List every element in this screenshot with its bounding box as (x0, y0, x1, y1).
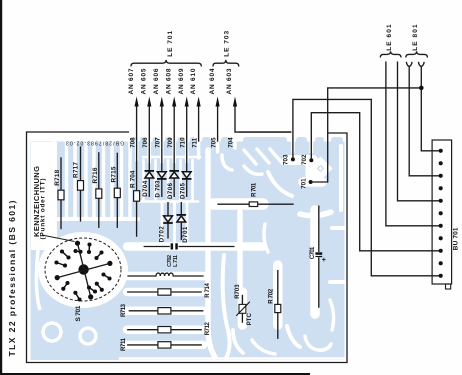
svg-text:AN 608: AN 608 (165, 68, 172, 94)
wire AN609/710 + arrow (to diode D705) (185, 97, 189, 198)
svg-text:709: 709 (167, 137, 174, 148)
svg-text:R713: R713 (121, 303, 127, 317)
resistor R701 (217, 202, 293, 207)
svg-text:AN 605: AN 605 (141, 68, 148, 94)
label R 701 (252, 182, 258, 197)
svg-text:AN 604: AN 604 (209, 68, 216, 94)
svg-text:AN 610: AN 610 (190, 68, 197, 94)
svg-text:703: 703 (283, 154, 290, 165)
inductor L711 (127, 273, 203, 276)
label R 702 (268, 288, 274, 304)
label R715 (110, 166, 117, 182)
label R718 (54, 169, 61, 185)
label C701 (310, 246, 316, 259)
label AN 607 (128, 68, 135, 94)
label AN 603 (226, 68, 233, 94)
label R712 (205, 322, 211, 336)
pad label 707 (155, 137, 162, 148)
thermistor R703 PTC (236, 295, 250, 323)
wire AN608/709 + arrow (to diode D706) (172, 97, 176, 198)
label D705 (181, 182, 187, 199)
label C702 (167, 255, 173, 267)
svg-text:AN 603: AN 603 (226, 68, 233, 94)
label LE 703 (224, 31, 231, 57)
svg-text:D 703: D 703 (156, 180, 162, 198)
diode D706 (169, 171, 179, 178)
svg-text:R 704: R 704 (130, 170, 137, 188)
svg-text:D704: D704 (143, 180, 149, 197)
svg-text:708: 708 (129, 137, 136, 148)
label AN 610 (190, 68, 197, 94)
svg-text:LE 703: LE 703 (224, 31, 231, 57)
svg-text:AN 606: AN 606 (153, 68, 160, 94)
wire AN606/707 + arrow (to diode D703) (160, 97, 164, 198)
wire LE601 left (to BU701 pin 7) (386, 62, 441, 226)
svg-text:D705: D705 (181, 182, 187, 199)
svg-text:704: 704 (228, 137, 235, 148)
resistor R702 (275, 270, 281, 339)
wire AN607/708 + arrow (to resistor R704) (135, 97, 139, 237)
brace LE 601 (380, 51, 401, 57)
svg-text:R712: R712 (205, 322, 211, 336)
label AN 606 (153, 68, 160, 94)
diode D702 (163, 202, 173, 239)
svg-text:AN 609: AN 609 (178, 68, 185, 94)
svg-text:AN 607: AN 607 (128, 68, 135, 94)
svg-text:R 702: R 702 (268, 288, 274, 304)
svg-text:711: 711 (191, 137, 198, 148)
pad label 710 (179, 137, 186, 148)
label AN 605 (141, 68, 148, 94)
pad label 704 (228, 137, 235, 148)
diode D704 (145, 171, 155, 178)
svg-text:+: + (322, 255, 326, 264)
resistor R715 (114, 153, 120, 228)
label D 703 (156, 180, 162, 198)
svg-text:707: 707 (155, 137, 162, 148)
diode D705 (182, 172, 192, 179)
callout line KENNZEICHNUNG to S701 (42, 235, 75, 242)
label R 704 (130, 170, 137, 188)
label S 701 (75, 305, 82, 321)
svg-text:710: 710 (179, 137, 186, 148)
pad label 708 (129, 137, 136, 148)
wire LE801 right with fork terminal (to BU701 pin 1) (419, 62, 441, 151)
capacitor C701 (electrolytic) (315, 206, 326, 308)
brace LE 703 (213, 60, 239, 67)
svg-text:D702: D702 (159, 226, 165, 243)
svg-text:PTC: PTC (247, 313, 253, 326)
wire AN605/706 + arrow (to diode D704) (147, 97, 151, 198)
label LE 801 (412, 24, 419, 51)
label D702 (159, 226, 165, 243)
svg-text:R703: R703 (235, 284, 241, 299)
label R711 (121, 337, 127, 351)
svg-text:R711: R711 (121, 337, 127, 351)
label R703 (235, 284, 241, 299)
resistor R711 (127, 342, 202, 348)
svg-text:L 711: L 711 (173, 255, 179, 267)
wire LE601 right (to BU701 pin 5) (398, 62, 441, 201)
label LE 601 (386, 24, 393, 51)
svg-text:S 701: S 701 (75, 305, 82, 321)
svg-text:C701: C701 (310, 246, 316, 259)
scan artifact bottom edge line (0, 373, 310, 375)
label AN 609 (178, 68, 185, 94)
svg-text:R717: R717 (72, 162, 79, 178)
brace LE 701 (131, 60, 202, 67)
label AN 608 (165, 68, 172, 94)
label R 714 (205, 283, 211, 298)
resistor R716 (96, 152, 102, 228)
pad label 711 (191, 137, 198, 148)
label KENNZEICHNUNG (32, 166, 41, 237)
svg-text:TLX 22 professional (BS 601): TLX 22 professional (BS 601) (7, 200, 17, 356)
label R716 (92, 167, 99, 183)
label BU 701 (453, 227, 460, 250)
diode D703 (157, 172, 167, 179)
wire AN610/711 + arrow (stub) (197, 97, 201, 142)
wire AN604/705 + arrow (stub) (216, 97, 220, 142)
label TLX 22 professional (BS 601) (7, 200, 17, 356)
capacitor C702 (144, 243, 235, 249)
svg-text:D706: D706 (168, 182, 174, 199)
brace LE 801 (406, 51, 428, 57)
svg-text:(Punkt oder ITT): (Punkt oder ITT) (40, 179, 47, 240)
svg-text:LE 701: LE 701 (167, 31, 174, 57)
pad label 709 (167, 137, 174, 148)
wire LE801 left with fork terminal (to BU701 pin 3) (406, 62, 440, 176)
label R717 (72, 162, 79, 178)
svg-text:706: 706 (142, 137, 149, 148)
resistor R712 (127, 327, 202, 333)
pad label 703 (283, 154, 290, 165)
pad label 701 (300, 178, 307, 189)
svg-text:702: 702 (301, 154, 308, 165)
label (Punkt oder ITT) (40, 179, 47, 240)
wire 702 (pad dot to BU701 pin 9) (309, 113, 440, 251)
svg-text:R716: R716 (92, 167, 99, 183)
svg-text:R 714: R 714 (205, 283, 211, 298)
svg-text:R715: R715 (110, 166, 117, 182)
diode D701 (177, 202, 187, 240)
label D701 (183, 226, 189, 243)
label L 711 (173, 255, 179, 267)
resistor R718 (58, 157, 64, 229)
label D706 (168, 182, 174, 199)
pad label 702 (301, 154, 308, 165)
wire 703 (pad dot to BU701 pin 11) (291, 99, 441, 275)
resistor R713 (129, 308, 204, 314)
rotary switch S701 (45, 238, 121, 302)
resistor R714 (127, 289, 202, 295)
svg-text:R718: R718 (54, 169, 61, 185)
connector BU 701 (432, 140, 452, 289)
wire AN603/704 + arrow (turns right at board edge) (233, 97, 291, 133)
label PTC (247, 313, 253, 326)
scan artifact left edge line (0, 0, 2, 375)
label AN 604 (209, 68, 216, 94)
resistor R717 (78, 146, 84, 221)
svg-text:D701: D701 (183, 226, 189, 243)
label LE 701 (167, 31, 174, 57)
pad label 705 (210, 137, 217, 148)
svg-text:701: 701 (300, 178, 307, 189)
svg-text:BU 701: BU 701 (453, 227, 460, 250)
wire 701 (pad dot to junction on LE801 right) (309, 86, 424, 184)
label R713 (121, 303, 127, 317)
resistor R704 (134, 191, 140, 202)
pad label 706 (142, 137, 149, 148)
board outline (PCB edge) (27, 132, 348, 363)
svg-text:R 701: R 701 (252, 182, 258, 197)
label D704 (143, 180, 149, 197)
svg-text:705: 705 (210, 137, 217, 148)
